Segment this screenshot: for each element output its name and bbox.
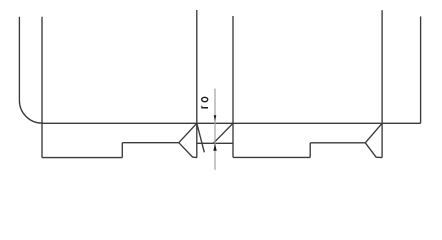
dimension line [214, 89, 216, 170]
step right [309, 143, 311, 158]
plate bottom left [42, 157, 122, 159]
bevel left upper [179, 123, 197, 142]
bevel right 45deg [213, 123, 233, 143]
plate top surface [42, 122, 421, 124]
wall left inner face [41, 17, 43, 158]
dimension text digit 1 [201, 105, 208, 108]
plate right end face [420, 16, 422, 123]
groove diagonal steep [197, 124, 204, 153]
plate bottom middle [233, 156, 310, 158]
bevel far-right upper [365, 123, 382, 143]
wall far-right left face [381, 10, 383, 158]
root face left [122, 142, 179, 144]
wall left outer face with fillet [19, 17, 42, 123]
root face right [310, 142, 365, 144]
dimension arrow down [214, 115, 217, 121]
wall middle right face [196, 10, 198, 158]
bevel far-right lower [365, 143, 382, 158]
step left [121, 143, 123, 158]
dimension text 10 (rotated, drawn as paths: digit 0 [202, 97, 208, 101]
wall right left face [232, 16, 234, 157]
dimension arrow up [213, 144, 216, 151]
root face middle [197, 142, 233, 144]
bevel left lower [179, 143, 197, 158]
